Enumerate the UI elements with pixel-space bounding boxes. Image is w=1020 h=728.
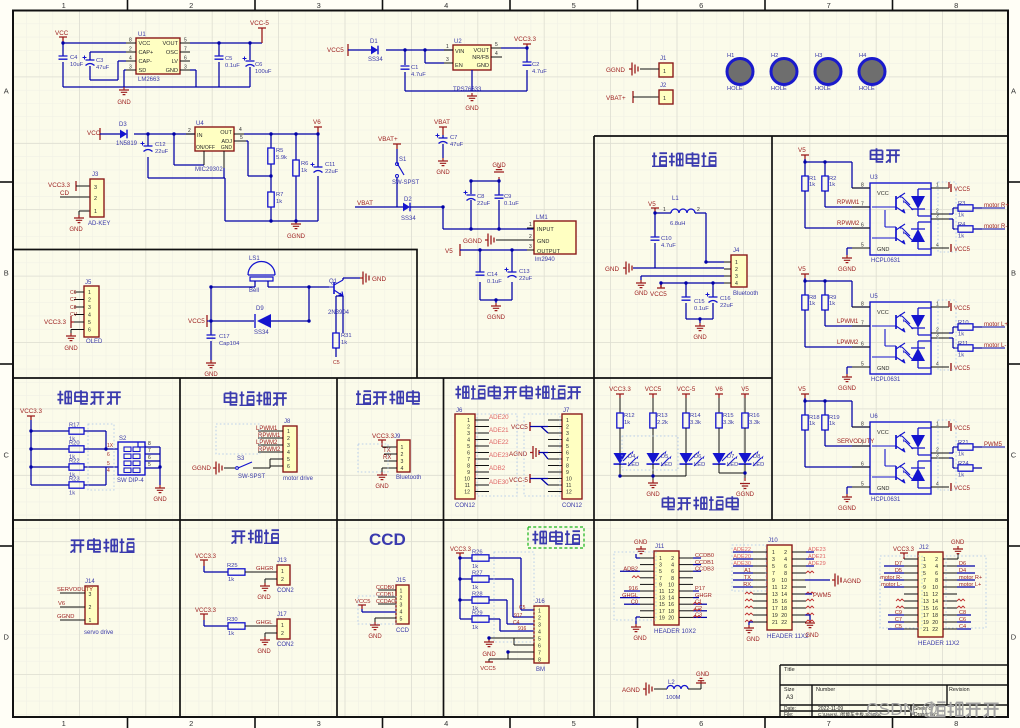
svg-text:GND: GND xyxy=(69,227,83,233)
svg-text:LPWM1: LPWM1 xyxy=(837,319,859,325)
svg-text:VCC-5: VCC-5 xyxy=(677,386,696,393)
svg-text:V5: V5 xyxy=(798,266,806,273)
net label C5 xyxy=(335,348,337,357)
svg-text:R25: R25 xyxy=(227,563,238,569)
svg-text:OSC: OSC xyxy=(166,50,178,56)
svg-text:OLED: OLED xyxy=(86,339,103,345)
svg-text:10: 10 xyxy=(932,585,938,591)
capacitor C4 xyxy=(59,56,68,59)
svg-text:HEADER 10X2: HEADER 10X2 xyxy=(654,628,697,635)
wire xyxy=(654,688,667,690)
svg-text:D4: D4 xyxy=(628,454,636,460)
svg-text:15: 15 xyxy=(923,606,929,612)
svg-text:5: 5 xyxy=(572,719,576,728)
svg-text:SERVODUTY: SERVODUTY xyxy=(57,587,93,593)
wire xyxy=(410,181,534,229)
svg-text:16: 16 xyxy=(668,602,674,608)
svg-text:motor L+: motor L+ xyxy=(984,322,1008,328)
svg-text:8: 8 xyxy=(861,302,864,308)
svg-text:RPWM1: RPWM1 xyxy=(837,200,860,206)
svg-text:1: 1 xyxy=(735,260,738,266)
mounting hole H2 xyxy=(771,59,797,85)
svg-text:10: 10 xyxy=(781,578,787,584)
ground GND bottom of J10 xyxy=(749,622,753,625)
svg-text:VCC-5: VCC-5 xyxy=(250,20,269,27)
resistor R31 xyxy=(333,333,339,348)
svg-text:GND: GND xyxy=(375,484,389,490)
svg-text:4: 4 xyxy=(784,557,787,563)
svg-text:U1: U1 xyxy=(138,32,146,38)
svg-text:J14: J14 xyxy=(85,579,95,585)
resistor R7 xyxy=(268,192,274,207)
LED D4 xyxy=(619,428,621,453)
svg-text:B: B xyxy=(4,269,9,278)
svg-text:H3: H3 xyxy=(815,53,822,59)
svg-text:VCC5: VCC5 xyxy=(954,247,971,253)
wire xyxy=(84,431,118,485)
svg-text:C7: C7 xyxy=(450,135,457,141)
svg-text:VIN: VIN xyxy=(455,49,464,55)
wire squiggle xyxy=(745,599,753,601)
title 电源指示灯 xyxy=(662,496,674,510)
connector J6 CON12 xyxy=(455,414,475,499)
svg-text:Number: Number xyxy=(816,687,835,693)
svg-text:HOLE: HOLE xyxy=(859,86,875,92)
capacitor C9 xyxy=(495,195,504,198)
svg-text:Size: Size xyxy=(784,687,795,693)
mounting hole H3 xyxy=(815,59,841,85)
svg-text:VCC: VCC xyxy=(139,41,151,47)
svg-text:1: 1 xyxy=(89,618,92,624)
svg-text:U5: U5 xyxy=(870,294,878,300)
svg-text:R24: R24 xyxy=(958,461,969,467)
wire squiggle xyxy=(693,615,701,617)
svg-text:6: 6 xyxy=(107,452,110,458)
svg-text:C5: C5 xyxy=(333,360,340,366)
svg-text:GGND: GGND xyxy=(606,67,625,74)
ground GND xyxy=(260,637,270,645)
svg-text:2: 2 xyxy=(89,605,92,611)
connector J14 servo drive xyxy=(85,586,98,624)
svg-text:VCC3.3: VCC3.3 xyxy=(20,408,43,415)
wire xyxy=(90,52,126,80)
svg-text:917: 917 xyxy=(514,613,523,619)
svg-text:C16: C16 xyxy=(720,296,731,302)
svg-text:17: 17 xyxy=(772,606,778,612)
svg-text:R26: R26 xyxy=(472,550,483,556)
svg-text:VCC5: VCC5 xyxy=(480,666,495,672)
diode D1 SS34 xyxy=(371,46,378,55)
svg-text:D9: D9 xyxy=(256,306,264,312)
svg-text:11: 11 xyxy=(566,483,571,489)
title 编码器 (selected) xyxy=(532,531,546,545)
svg-text:4: 4 xyxy=(495,51,498,57)
svg-text:5: 5 xyxy=(659,569,662,575)
svg-text:R5: R5 xyxy=(276,148,283,154)
svg-text:RX: RX xyxy=(383,455,391,461)
capacitor C1 xyxy=(401,66,410,69)
capacitor C10 xyxy=(651,237,660,240)
svg-text:6: 6 xyxy=(861,462,864,468)
svg-text:J16: J16 xyxy=(535,599,545,605)
svg-text:ON/OFF: ON/OFF xyxy=(196,145,215,151)
svg-text:14: 14 xyxy=(781,592,787,598)
svg-text:C1: C1 xyxy=(411,65,418,71)
svg-text:HOLE: HOLE xyxy=(727,86,743,92)
svg-text:12: 12 xyxy=(668,589,674,595)
wire xyxy=(265,579,277,583)
svg-text:GND: GND xyxy=(693,335,707,341)
diode D3 1N5819 xyxy=(120,130,127,139)
ground GND xyxy=(66,333,76,341)
svg-text:GND: GND xyxy=(482,652,496,658)
svg-text:J8: J8 xyxy=(284,419,291,425)
svg-text:LM1: LM1 xyxy=(536,215,548,221)
svg-text:D: D xyxy=(1011,633,1017,642)
svg-text:R16: R16 xyxy=(749,413,760,419)
svg-text:AGND: AGND xyxy=(843,578,861,585)
svg-text:20: 20 xyxy=(932,620,938,626)
svg-text:AD-KEY: AD-KEY xyxy=(88,221,110,227)
wire squiggle xyxy=(806,613,814,615)
connector J13 CON2 xyxy=(277,565,290,585)
svg-text:7: 7 xyxy=(467,457,470,463)
resistor R30 xyxy=(228,623,245,629)
svg-text:LM2663: LM2663 xyxy=(138,77,160,83)
svg-text:2: 2 xyxy=(697,207,700,213)
svg-text:SW-SPST: SW-SPST xyxy=(392,180,420,186)
svg-text:C10: C10 xyxy=(661,236,672,242)
svg-text:7: 7 xyxy=(827,1,831,10)
svg-text:HCPL0631: HCPL0631 xyxy=(871,497,901,503)
wire xyxy=(539,453,548,460)
svg-text:10: 10 xyxy=(566,477,572,483)
svg-text:1: 1 xyxy=(936,183,939,189)
svg-text:VCC5: VCC5 xyxy=(954,426,971,432)
resistor R5 xyxy=(268,148,274,164)
ground GND xyxy=(438,158,448,166)
svg-text:GGND: GGND xyxy=(487,315,506,321)
svg-text:VCC5: VCC5 xyxy=(650,291,667,298)
svg-text:22: 22 xyxy=(932,627,938,633)
svg-text:7: 7 xyxy=(566,457,569,463)
svg-text:1k: 1k xyxy=(276,199,282,205)
svg-text:V6: V6 xyxy=(715,386,723,393)
svg-text:R3: R3 xyxy=(958,201,965,207)
net label GGND xyxy=(60,619,85,621)
svg-text:4: 4 xyxy=(239,127,242,133)
svg-text:HEADER 11X2: HEADER 11X2 xyxy=(767,633,809,640)
block divider lines xyxy=(13,136,1008,717)
ground GGND xyxy=(842,374,852,382)
svg-text:8: 8 xyxy=(671,576,674,582)
svg-text:22uF: 22uF xyxy=(519,276,533,282)
svg-text:1: 1 xyxy=(663,96,666,102)
svg-text:3: 3 xyxy=(467,431,470,437)
svg-text:SW-SPST: SW-SPST xyxy=(238,474,266,480)
svg-text:5: 5 xyxy=(861,482,864,488)
svg-text:2: 2 xyxy=(129,47,132,53)
svg-text:J10: J10 xyxy=(768,538,778,544)
svg-text:1: 1 xyxy=(446,44,449,50)
svg-text:J5: J5 xyxy=(85,280,92,286)
connector J11 HEADER 10X2 xyxy=(654,551,679,625)
power net VCC5 xyxy=(948,182,950,188)
title block frame xyxy=(780,665,1008,717)
svg-text:1k: 1k xyxy=(472,564,478,570)
svg-text:V5: V5 xyxy=(445,248,453,255)
svg-text:GHGL: GHGL xyxy=(256,620,273,626)
svg-text:motor drive: motor drive xyxy=(283,476,314,482)
svg-text:ADE21: ADE21 xyxy=(489,427,509,434)
resistor R17 xyxy=(69,428,84,434)
ground GND xyxy=(467,93,477,101)
svg-text:GHGR: GHGR xyxy=(256,566,273,572)
svg-text:3: 3 xyxy=(446,57,449,63)
resistor R2 xyxy=(822,176,828,191)
svg-text:12: 12 xyxy=(464,490,470,496)
svg-text:GND: GND xyxy=(634,540,648,546)
svg-text:3: 3 xyxy=(129,65,132,71)
svg-text:8: 8 xyxy=(784,571,787,577)
wire xyxy=(190,43,262,87)
power net VCC5 xyxy=(948,421,950,427)
svg-text:H4: H4 xyxy=(859,53,867,59)
svg-text:GND: GND xyxy=(257,595,271,601)
svg-text:VCC5: VCC5 xyxy=(954,187,971,193)
svg-text:2: 2 xyxy=(400,595,403,601)
svg-text:8: 8 xyxy=(566,464,569,470)
svg-text:4: 4 xyxy=(936,362,939,368)
svg-text:6: 6 xyxy=(861,342,864,348)
svg-text:A: A xyxy=(1011,87,1016,96)
svg-text:2: 2 xyxy=(189,719,193,728)
svg-text:GGND: GGND xyxy=(287,234,306,240)
svg-text:2: 2 xyxy=(281,577,284,583)
wire xyxy=(460,250,527,303)
ground GND xyxy=(648,480,658,488)
svg-text:47uF: 47uF xyxy=(96,65,110,71)
power net VCC5 xyxy=(489,652,534,662)
svg-text:OUTPUT: OUTPUT xyxy=(537,249,561,255)
svg-text:1: 1 xyxy=(467,418,470,424)
svg-text:CCDAO: CCDAO xyxy=(376,599,395,605)
wire xyxy=(805,430,870,467)
svg-text:D7: D7 xyxy=(727,454,734,460)
svg-text:servo drive: servo drive xyxy=(84,630,114,636)
wire xyxy=(31,420,69,485)
resistor R26 xyxy=(472,555,489,561)
svg-text:9: 9 xyxy=(566,470,569,476)
svg-text:VCC-5: VCC-5 xyxy=(509,477,528,484)
svg-text:D: D xyxy=(3,633,9,642)
svg-text:14: 14 xyxy=(932,599,938,605)
connector J2 xyxy=(659,90,673,104)
svg-text:GND: GND xyxy=(877,247,889,253)
svg-text:5: 5 xyxy=(772,564,775,570)
ground GND bottom of J11 xyxy=(636,617,640,624)
svg-text:GND: GND xyxy=(537,239,549,245)
svg-text:TX: TX xyxy=(383,448,391,454)
resistor R3 xyxy=(949,208,982,214)
svg-text:22uF: 22uF xyxy=(477,201,491,207)
svg-text:1: 1 xyxy=(88,290,91,296)
wire xyxy=(688,683,701,689)
svg-text:1: 1 xyxy=(659,556,662,562)
svg-text:H1: H1 xyxy=(727,53,734,59)
svg-text:VCC3.3: VCC3.3 xyxy=(893,547,915,553)
wire xyxy=(336,278,360,333)
svg-text:RPWM2: RPWM2 xyxy=(258,447,281,453)
svg-text:7: 7 xyxy=(184,47,187,53)
svg-text:L1: L1 xyxy=(672,196,679,202)
svg-text:5: 5 xyxy=(572,1,576,10)
svg-text:1k: 1k xyxy=(472,625,478,631)
svg-text:BM: BM xyxy=(536,667,545,673)
connector J4 Bluetooth xyxy=(731,255,747,287)
svg-text:8: 8 xyxy=(129,38,132,44)
svg-text:2: 2 xyxy=(529,234,532,240)
svg-text:3: 3 xyxy=(936,453,939,459)
wire xyxy=(382,446,397,448)
svg-text:GND: GND xyxy=(951,540,965,546)
ground GND small xyxy=(636,280,646,288)
svg-text:R22: R22 xyxy=(69,459,80,465)
svg-text:LED: LED xyxy=(753,462,764,468)
svg-text:IN: IN xyxy=(197,133,203,139)
regulator U4 MIC29302 xyxy=(195,127,234,151)
title 隔离模块 xyxy=(652,152,667,166)
svg-text:8: 8 xyxy=(935,578,938,584)
wire xyxy=(265,633,277,637)
svg-text:1N5819: 1N5819 xyxy=(116,141,138,147)
svg-text:ADB2: ADB2 xyxy=(489,465,506,472)
wire squiggle xyxy=(806,606,814,608)
svg-text:16: 16 xyxy=(781,599,787,605)
svg-text:13: 13 xyxy=(772,592,778,598)
svg-text:GND: GND xyxy=(746,637,760,643)
svg-text:R4: R4 xyxy=(958,222,966,228)
selection highlights xyxy=(216,424,260,454)
svg-text:1: 1 xyxy=(538,608,541,614)
wire xyxy=(805,278,870,307)
svg-text:8: 8 xyxy=(538,657,541,663)
svg-text:1k: 1k xyxy=(809,301,815,307)
svg-text:GGND: GGND xyxy=(838,267,857,273)
title 光耦 xyxy=(871,148,884,162)
svg-text:6: 6 xyxy=(566,451,569,457)
svg-text:11: 11 xyxy=(923,592,928,598)
net label motor R- xyxy=(982,228,1005,230)
svg-text:8: 8 xyxy=(861,183,864,189)
svg-text:1: 1 xyxy=(936,422,939,428)
svg-text:J9: J9 xyxy=(394,434,401,440)
svg-text:4: 4 xyxy=(735,281,738,287)
svg-text:Bluetooth: Bluetooth xyxy=(733,291,758,297)
svg-text:3.3k: 3.3k xyxy=(690,420,701,426)
svg-text:VCC3.3: VCC3.3 xyxy=(48,182,71,189)
svg-text:V6: V6 xyxy=(313,119,321,126)
svg-text:HCPL0631: HCPL0631 xyxy=(871,258,901,264)
svg-text:D2: D2 xyxy=(404,197,412,203)
svg-text:5: 5 xyxy=(538,636,541,642)
svg-text:VBAT+: VBAT+ xyxy=(606,95,626,102)
wire xyxy=(148,134,318,221)
svg-text:19: 19 xyxy=(923,620,929,626)
svg-text:3: 3 xyxy=(538,622,541,628)
title 舵机插针 xyxy=(70,540,84,552)
capacitor C15 xyxy=(682,297,691,300)
svg-text:5: 5 xyxy=(88,320,91,326)
svg-text:12: 12 xyxy=(566,490,572,496)
svg-text:13: 13 xyxy=(659,596,665,602)
svg-text:C5: C5 xyxy=(519,605,526,611)
svg-text:S1: S1 xyxy=(399,157,407,163)
LED D8 xyxy=(744,428,746,453)
title 蓝牙插针 xyxy=(356,390,371,404)
net label CCDB1 xyxy=(378,596,396,598)
svg-text:4: 4 xyxy=(444,1,448,10)
svg-text:22: 22 xyxy=(781,620,787,626)
svg-text:9: 9 xyxy=(659,582,662,588)
svg-text:100uF: 100uF xyxy=(255,69,272,75)
svg-text:4: 4 xyxy=(88,313,91,319)
diode D9 SS34 xyxy=(211,320,309,322)
svg-text:VOUT: VOUT xyxy=(473,48,489,54)
svg-text:2: 2 xyxy=(735,267,738,273)
svg-text:C17: C17 xyxy=(219,334,230,340)
connector J8 motor drive xyxy=(283,426,297,472)
capacitor C3 xyxy=(86,59,95,61)
svg-text:2: 2 xyxy=(935,557,938,563)
svg-text:3: 3 xyxy=(401,459,404,465)
svg-text:1k: 1k xyxy=(228,631,234,637)
svg-text:R6: R6 xyxy=(301,161,308,167)
svg-text:HOLE: HOLE xyxy=(815,86,831,92)
net label SERVODUTY xyxy=(60,592,85,594)
wire xyxy=(60,186,90,215)
svg-text:3: 3 xyxy=(317,1,321,10)
svg-text:7: 7 xyxy=(538,650,541,656)
svg-text:4: 4 xyxy=(467,438,470,444)
svg-text:J7: J7 xyxy=(563,408,570,414)
svg-text:GND: GND xyxy=(436,170,450,176)
wire xyxy=(204,620,228,626)
mounting hole H4 xyxy=(859,59,885,85)
svg-text:20: 20 xyxy=(668,615,674,621)
svg-text:VCC: VCC xyxy=(87,130,101,137)
svg-text:3: 3 xyxy=(400,602,403,608)
svg-text:10uF: 10uF xyxy=(70,62,84,68)
resistor R4 xyxy=(949,219,982,229)
svg-text:CCDB1: CCDB1 xyxy=(376,592,394,598)
svg-text:5: 5 xyxy=(495,42,498,48)
wire xyxy=(847,367,852,374)
svg-text:GND: GND xyxy=(465,106,479,112)
wire xyxy=(253,459,283,468)
svg-text:12: 12 xyxy=(781,585,787,591)
svg-text:J4: J4 xyxy=(733,248,740,254)
wire xyxy=(640,68,652,70)
svg-text:7: 7 xyxy=(923,578,926,584)
svg-text:GND: GND xyxy=(153,497,167,503)
wire squiggle xyxy=(693,609,701,611)
svg-text:1k: 1k xyxy=(958,452,964,458)
svg-text:V5: V5 xyxy=(798,386,806,393)
svg-text:4: 4 xyxy=(936,482,939,488)
svg-text:ADE22: ADE22 xyxy=(489,439,509,446)
wire xyxy=(442,135,444,158)
